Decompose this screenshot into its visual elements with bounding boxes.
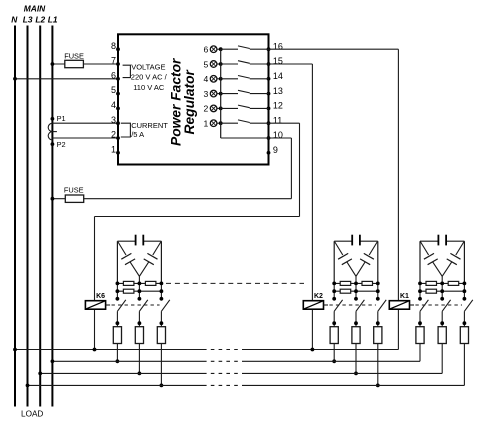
svg-text:13: 13 xyxy=(273,86,283,96)
svg-text:4: 4 xyxy=(204,74,209,84)
svg-text:1: 1 xyxy=(204,119,209,129)
svg-text:N: N xyxy=(11,15,18,25)
svg-text:5: 5 xyxy=(204,59,209,69)
svg-text:CURRENT: CURRENT xyxy=(131,121,168,130)
svg-text:1: 1 xyxy=(111,144,116,154)
svg-text:FUSE: FUSE xyxy=(64,186,84,195)
svg-text:MAIN: MAIN xyxy=(24,3,46,13)
svg-text:2: 2 xyxy=(111,130,116,140)
svg-text:10: 10 xyxy=(273,130,283,140)
svg-text:L2: L2 xyxy=(35,15,45,25)
svg-text:6: 6 xyxy=(204,45,209,55)
svg-text:K6: K6 xyxy=(96,293,105,300)
svg-text:11: 11 xyxy=(273,115,282,125)
svg-text:4: 4 xyxy=(111,100,116,110)
svg-text:3: 3 xyxy=(204,89,209,99)
svg-text:7: 7 xyxy=(111,56,116,66)
svg-text:9: 9 xyxy=(273,145,278,155)
svg-text:P2: P2 xyxy=(57,140,66,149)
svg-text:L3: L3 xyxy=(23,15,33,25)
svg-text:FUSE: FUSE xyxy=(64,52,84,61)
svg-text:P1: P1 xyxy=(57,114,66,123)
svg-text:Regulator: Regulator xyxy=(182,69,197,134)
svg-text:K1: K1 xyxy=(400,293,409,300)
svg-text:15: 15 xyxy=(273,56,283,66)
svg-text:L1: L1 xyxy=(48,15,58,25)
svg-text:VOLTAGE: VOLTAGE xyxy=(131,62,165,71)
svg-text:12: 12 xyxy=(273,101,283,111)
svg-text:14: 14 xyxy=(273,71,283,81)
svg-text:/5 A: /5 A xyxy=(131,130,144,139)
svg-text:5: 5 xyxy=(111,85,116,95)
svg-text:220 V AC /: 220 V AC / xyxy=(131,73,168,82)
svg-text:8: 8 xyxy=(111,41,116,51)
svg-text:2: 2 xyxy=(204,104,209,114)
svg-text:16: 16 xyxy=(273,41,283,51)
svg-text:110 V AC: 110 V AC xyxy=(133,83,165,92)
svg-text:3: 3 xyxy=(111,115,116,125)
svg-text:6: 6 xyxy=(111,70,116,80)
svg-text:K2: K2 xyxy=(314,293,323,300)
svg-text:LOAD: LOAD xyxy=(21,410,43,419)
